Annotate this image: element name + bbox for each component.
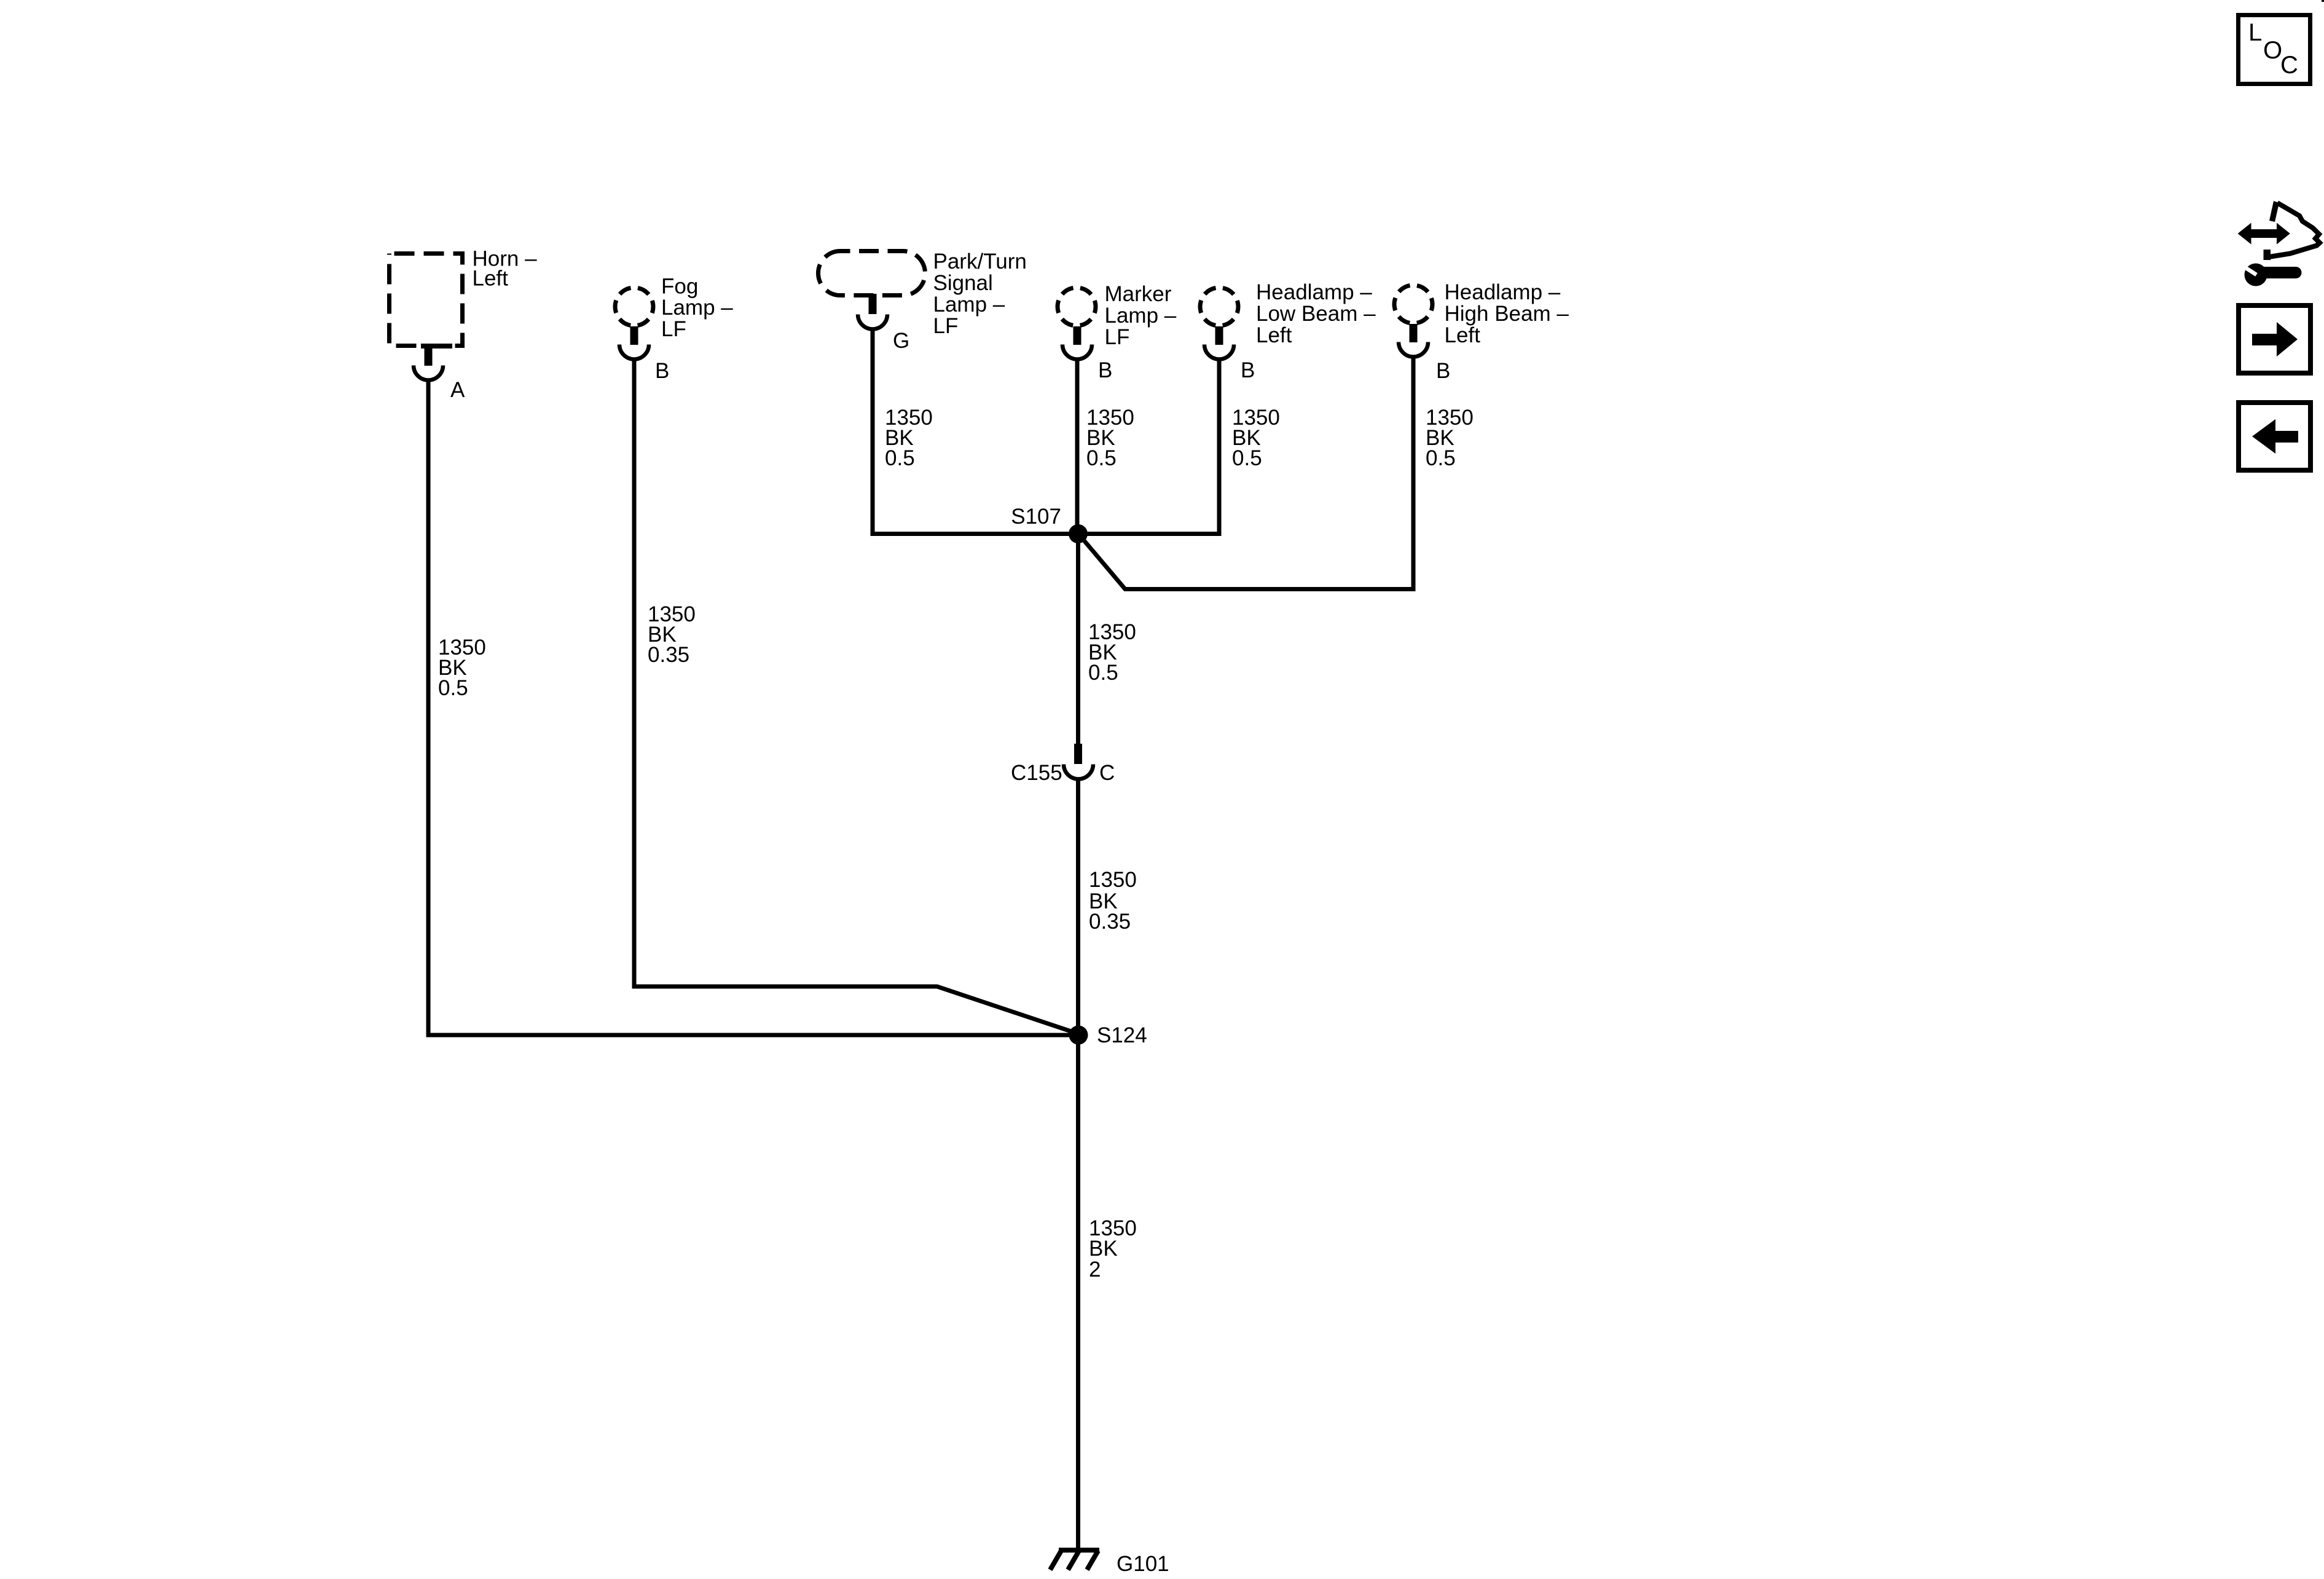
- component Fog Lamp - LF (dashed circle): [615, 288, 653, 326]
- svg-text:O: O: [2263, 37, 2282, 64]
- label Horn - Left: [473, 247, 538, 291]
- svg-text:Left: Left: [473, 267, 509, 291]
- svg-text:G: G: [893, 329, 909, 353]
- svg-text:Low Beam –: Low Beam –: [1256, 302, 1376, 326]
- svg-text:B: B: [1436, 359, 1450, 383]
- svg-text:0.5: 0.5: [438, 676, 468, 700]
- svg-text:Left: Left: [1445, 323, 1481, 347]
- svg-text:Lamp –: Lamp –: [933, 293, 1005, 317]
- ground symbol G101: [1050, 1550, 1099, 1570]
- wire Marker Lamp B down to S107: [1075, 359, 1080, 534]
- svg-text:0.5: 0.5: [1232, 446, 1262, 470]
- icon repair/diagnostic (double arrow, outline, bent arrow, wrench): [2238, 201, 2320, 286]
- label Park/Turn Signal Lamp - LF: [933, 250, 1027, 338]
- svg-text:B: B: [1241, 358, 1255, 382]
- svg-text:G101: G101: [1117, 1552, 1169, 1576]
- svg-text:Lamp –: Lamp –: [661, 296, 733, 320]
- connector pin of Horn: [414, 347, 443, 380]
- connector pin of Marker Lamp: [1062, 326, 1092, 360]
- wrench of repair icon: [2245, 264, 2267, 286]
- component Park/Turn Signal Lamp - LF (dashed stadium): [819, 251, 925, 296]
- page corner mark: [2322, 0, 2324, 2]
- svg-text:Headlamp –: Headlamp –: [1445, 280, 1561, 304]
- component Headlamp - Low Beam - Left (dashed circle): [1200, 288, 1238, 326]
- svg-text:LF: LF: [661, 317, 686, 341]
- svg-text:0.5: 0.5: [1088, 661, 1118, 685]
- svg-text:A: A: [450, 378, 465, 402]
- wire label 1350 BK 0.5 (S107 to C155): [1088, 620, 1136, 685]
- connector pin of Fog Lamp: [619, 326, 649, 360]
- svg-text:Fog: Fog: [661, 275, 698, 299]
- component Marker Lamp - LF (dashed circle): [1058, 288, 1096, 326]
- wire label 1350 BK 0.35 (C155 to S124): [1089, 868, 1137, 934]
- wire Fog Lamp B to S124: [634, 359, 1078, 1034]
- svg-text:Left: Left: [1256, 323, 1292, 347]
- svg-text:Marker: Marker: [1105, 282, 1172, 306]
- svg-text:C155: C155: [1011, 761, 1062, 785]
- svg-text:0.5: 0.5: [1086, 446, 1117, 470]
- wire label 1350 BK 2 (ground wire): [1089, 1216, 1137, 1282]
- svg-text:0.35: 0.35: [648, 643, 689, 667]
- connector pin of Park/Turn Signal Lamp: [858, 294, 887, 329]
- svg-text:1350: 1350: [1089, 868, 1137, 892]
- svg-text:Lamp –: Lamp –: [1105, 304, 1177, 328]
- label Fog Lamp - LF: [661, 275, 733, 342]
- svg-text:2: 2: [1089, 1258, 1101, 1282]
- svg-text:B: B: [655, 359, 669, 383]
- svg-text:C: C: [1099, 761, 1115, 785]
- wire label 1350 BK 0.5 (low beam wire): [1232, 406, 1280, 470]
- svg-text:B: B: [1098, 358, 1112, 382]
- bent arrow stub of repair icon: [2264, 250, 2271, 260]
- wire Headlamp High Beam B to S107: [1080, 356, 1413, 589]
- svg-text:LF: LF: [1105, 325, 1130, 349]
- connector C155: [1064, 744, 1093, 779]
- splice S124: [1069, 1026, 1088, 1045]
- wire Horn A to S124: [428, 379, 1078, 1035]
- svg-text:Signal: Signal: [933, 271, 993, 295]
- svg-text:Headlamp –: Headlamp –: [1256, 280, 1372, 304]
- wire label 1350 BK 0.5 (marker wire): [1086, 406, 1134, 470]
- wire S124 to G101: [1076, 1035, 1080, 1548]
- svg-text:LF: LF: [933, 314, 959, 338]
- label Headlamp - Low Beam - Left: [1256, 280, 1376, 347]
- component Headlamp - High Beam - Left (dashed circle): [1394, 285, 1432, 323]
- label Headlamp - High Beam - Left: [1445, 280, 1569, 347]
- svg-text:S124: S124: [1097, 1023, 1147, 1047]
- svg-text:S107: S107: [1011, 505, 1061, 529]
- wire label 1350 BK 0.5 (horn wire): [438, 636, 486, 700]
- icon LOC box (top right): [2239, 15, 2310, 84]
- connector pin of Headlamp High Beam: [1399, 324, 1428, 357]
- wire Park/Turn G through S107 bus to Headlamp Low Beam B: [873, 329, 1219, 534]
- connector pin of Headlamp Low Beam: [1204, 326, 1234, 360]
- svg-text:L: L: [2248, 19, 2262, 46]
- svg-text:0.5: 0.5: [1426, 446, 1456, 470]
- svg-text:0.5: 0.5: [885, 446, 915, 470]
- outline shape of repair icon: [2269, 201, 2279, 222]
- splice S107: [1069, 524, 1088, 543]
- icon forward arrow box: [2239, 305, 2310, 373]
- wire label 1350 BK 0.35 (fog wire): [648, 602, 696, 667]
- svg-text:High Beam –: High Beam –: [1445, 302, 1569, 326]
- wire label 1350 BK 0.5 (park/turn wire): [885, 406, 933, 470]
- double-headed arrow of repair icon: [2238, 223, 2290, 245]
- wire S107 to C155: [1076, 534, 1080, 745]
- wire label 1350 BK 0.5 (high beam wire): [1426, 406, 1474, 470]
- label Marker Lamp - LF: [1105, 282, 1177, 349]
- svg-text:0.35: 0.35: [1089, 910, 1131, 934]
- svg-text:Park/Turn: Park/Turn: [933, 250, 1027, 274]
- wire C155 to S124: [1076, 779, 1080, 1035]
- component Horn - Left (dashed box): [390, 254, 463, 349]
- svg-text:C: C: [2280, 52, 2298, 79]
- icon back arrow box: [2239, 403, 2310, 470]
